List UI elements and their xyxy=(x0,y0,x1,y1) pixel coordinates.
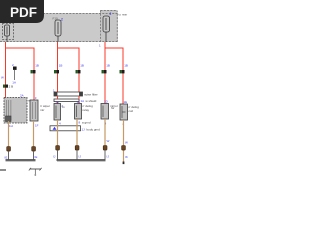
ground terminal col4 xyxy=(75,146,79,151)
relay box C dashed outline xyxy=(101,11,118,42)
relay box R1 (big) xyxy=(4,94,35,124)
PDF badge xyxy=(0,0,44,23)
svg-text:2A: 2A xyxy=(20,94,24,98)
svg-text:IJ: IJ xyxy=(107,155,110,159)
ground terminal col1 xyxy=(7,147,11,152)
connector box X3 xyxy=(40,104,65,121)
wire red col6 vertical xyxy=(122,48,124,105)
ground bus 1 xyxy=(6,151,36,161)
wire tan col3 vertical xyxy=(57,120,59,146)
svg-text:IK: IK xyxy=(125,155,128,159)
wire tan col4 vertical xyxy=(76,119,78,146)
shield busbar B2 xyxy=(54,99,97,103)
connector box X4 xyxy=(75,104,94,120)
connector junction col3 xyxy=(54,64,62,74)
connector junction col2 xyxy=(31,64,39,74)
ground terminal col3 xyxy=(56,146,60,151)
connector junction col6 xyxy=(120,64,128,74)
svg-text:2: 2 xyxy=(61,18,63,22)
junction block shaded band xyxy=(0,10,118,42)
wire red col3 over bars xyxy=(57,96,59,99)
wire red col2 vertical xyxy=(33,48,35,101)
ground terminal col2 xyxy=(32,147,36,152)
noise filter component between col1 and col2 xyxy=(12,63,17,85)
svg-text:3: 3 xyxy=(35,96,37,100)
svg-text:W: W xyxy=(107,139,110,143)
svg-text:4: 4 xyxy=(59,122,61,126)
wire red branch3 horizontal xyxy=(105,47,124,49)
ground terminal col6 xyxy=(122,146,126,151)
svg-text:1B: 1B xyxy=(80,64,84,68)
svg-text:2 B: 2 B xyxy=(9,85,14,89)
fuse F1 dashed box xyxy=(3,24,14,40)
wire tan col5 vertical xyxy=(104,119,106,146)
fuse F1 xyxy=(5,25,10,42)
svg-text:xx: xx xyxy=(62,105,65,109)
chassis ground symbol left edge xyxy=(0,169,6,171)
svg-text:1B: 1B xyxy=(35,64,39,68)
svg-text:1: 1 xyxy=(99,44,101,48)
svg-text:htr: htr xyxy=(111,106,115,110)
svg-text:PDF: PDF xyxy=(10,5,37,20)
wire stub end col6 xyxy=(123,162,125,165)
svg-text:1J: 1J xyxy=(82,128,86,132)
wire tan col2 vertical xyxy=(33,121,35,147)
svg-text:body grnd: body grnd xyxy=(87,128,101,132)
connector box X5 xyxy=(101,100,118,120)
svg-text:1E: 1E xyxy=(124,100,128,104)
svg-text:1B: 1B xyxy=(124,64,128,68)
connector junction col1 at box top xyxy=(3,85,13,89)
svg-text:2: 2 xyxy=(12,63,14,67)
svg-text:IJ: IJ xyxy=(79,155,82,159)
chassis ground symbol under bus1 xyxy=(29,168,42,176)
svg-text:IE: IE xyxy=(5,156,8,160)
wire red branch2 horizontal xyxy=(57,47,80,49)
wire tan col6 vertical xyxy=(123,120,125,162)
fuse F3 xyxy=(103,12,112,42)
svg-text:2: 2 xyxy=(110,12,112,16)
ground terminal col5 xyxy=(103,146,107,151)
connector junction col5 xyxy=(102,64,110,74)
connector box X6 xyxy=(111,100,139,120)
wire red col4 over bars xyxy=(78,96,80,99)
svg-text:1B: 1B xyxy=(106,64,110,68)
svg-text:W: W xyxy=(125,141,128,145)
fuse F2 xyxy=(53,17,64,43)
svg-text:IE: IE xyxy=(35,155,38,159)
connector box X2 xyxy=(30,96,38,121)
svg-text:1H: 1H xyxy=(9,124,13,128)
svg-text:1B: 1B xyxy=(59,64,63,68)
svg-text:1F: 1F xyxy=(35,124,39,128)
svg-text:noise filter: noise filter xyxy=(84,93,98,97)
shield busbar B1 xyxy=(54,92,98,97)
ground strap bar across col3 col4 xyxy=(50,126,100,132)
wire tan col1 vertical xyxy=(8,121,10,147)
wire red col1 vertical xyxy=(5,42,7,98)
svg-text:W: W xyxy=(1,76,4,80)
wire red col4 vertical xyxy=(78,48,80,104)
svg-text:w shield: w shield xyxy=(86,99,97,103)
ground bus 2 xyxy=(57,150,106,161)
svg-text:1D: 1D xyxy=(104,100,109,104)
svg-text:to rear: to rear xyxy=(119,13,128,17)
wire red col3 vertical xyxy=(57,42,59,104)
svg-text:IJ: IJ xyxy=(53,155,56,159)
svg-text:1A: 1A xyxy=(81,99,85,103)
connector junction col4 xyxy=(76,64,84,74)
svg-text:mtr: mtr xyxy=(40,108,44,112)
wire red col5 vertical xyxy=(104,42,106,104)
svg-text:8: 8 xyxy=(79,121,81,125)
svg-text:coil: coil xyxy=(129,109,134,113)
wire red branch1 horizontal xyxy=(5,47,35,49)
svg-text:a grnd: a grnd xyxy=(82,121,91,125)
svg-text:relay: relay xyxy=(83,108,90,112)
